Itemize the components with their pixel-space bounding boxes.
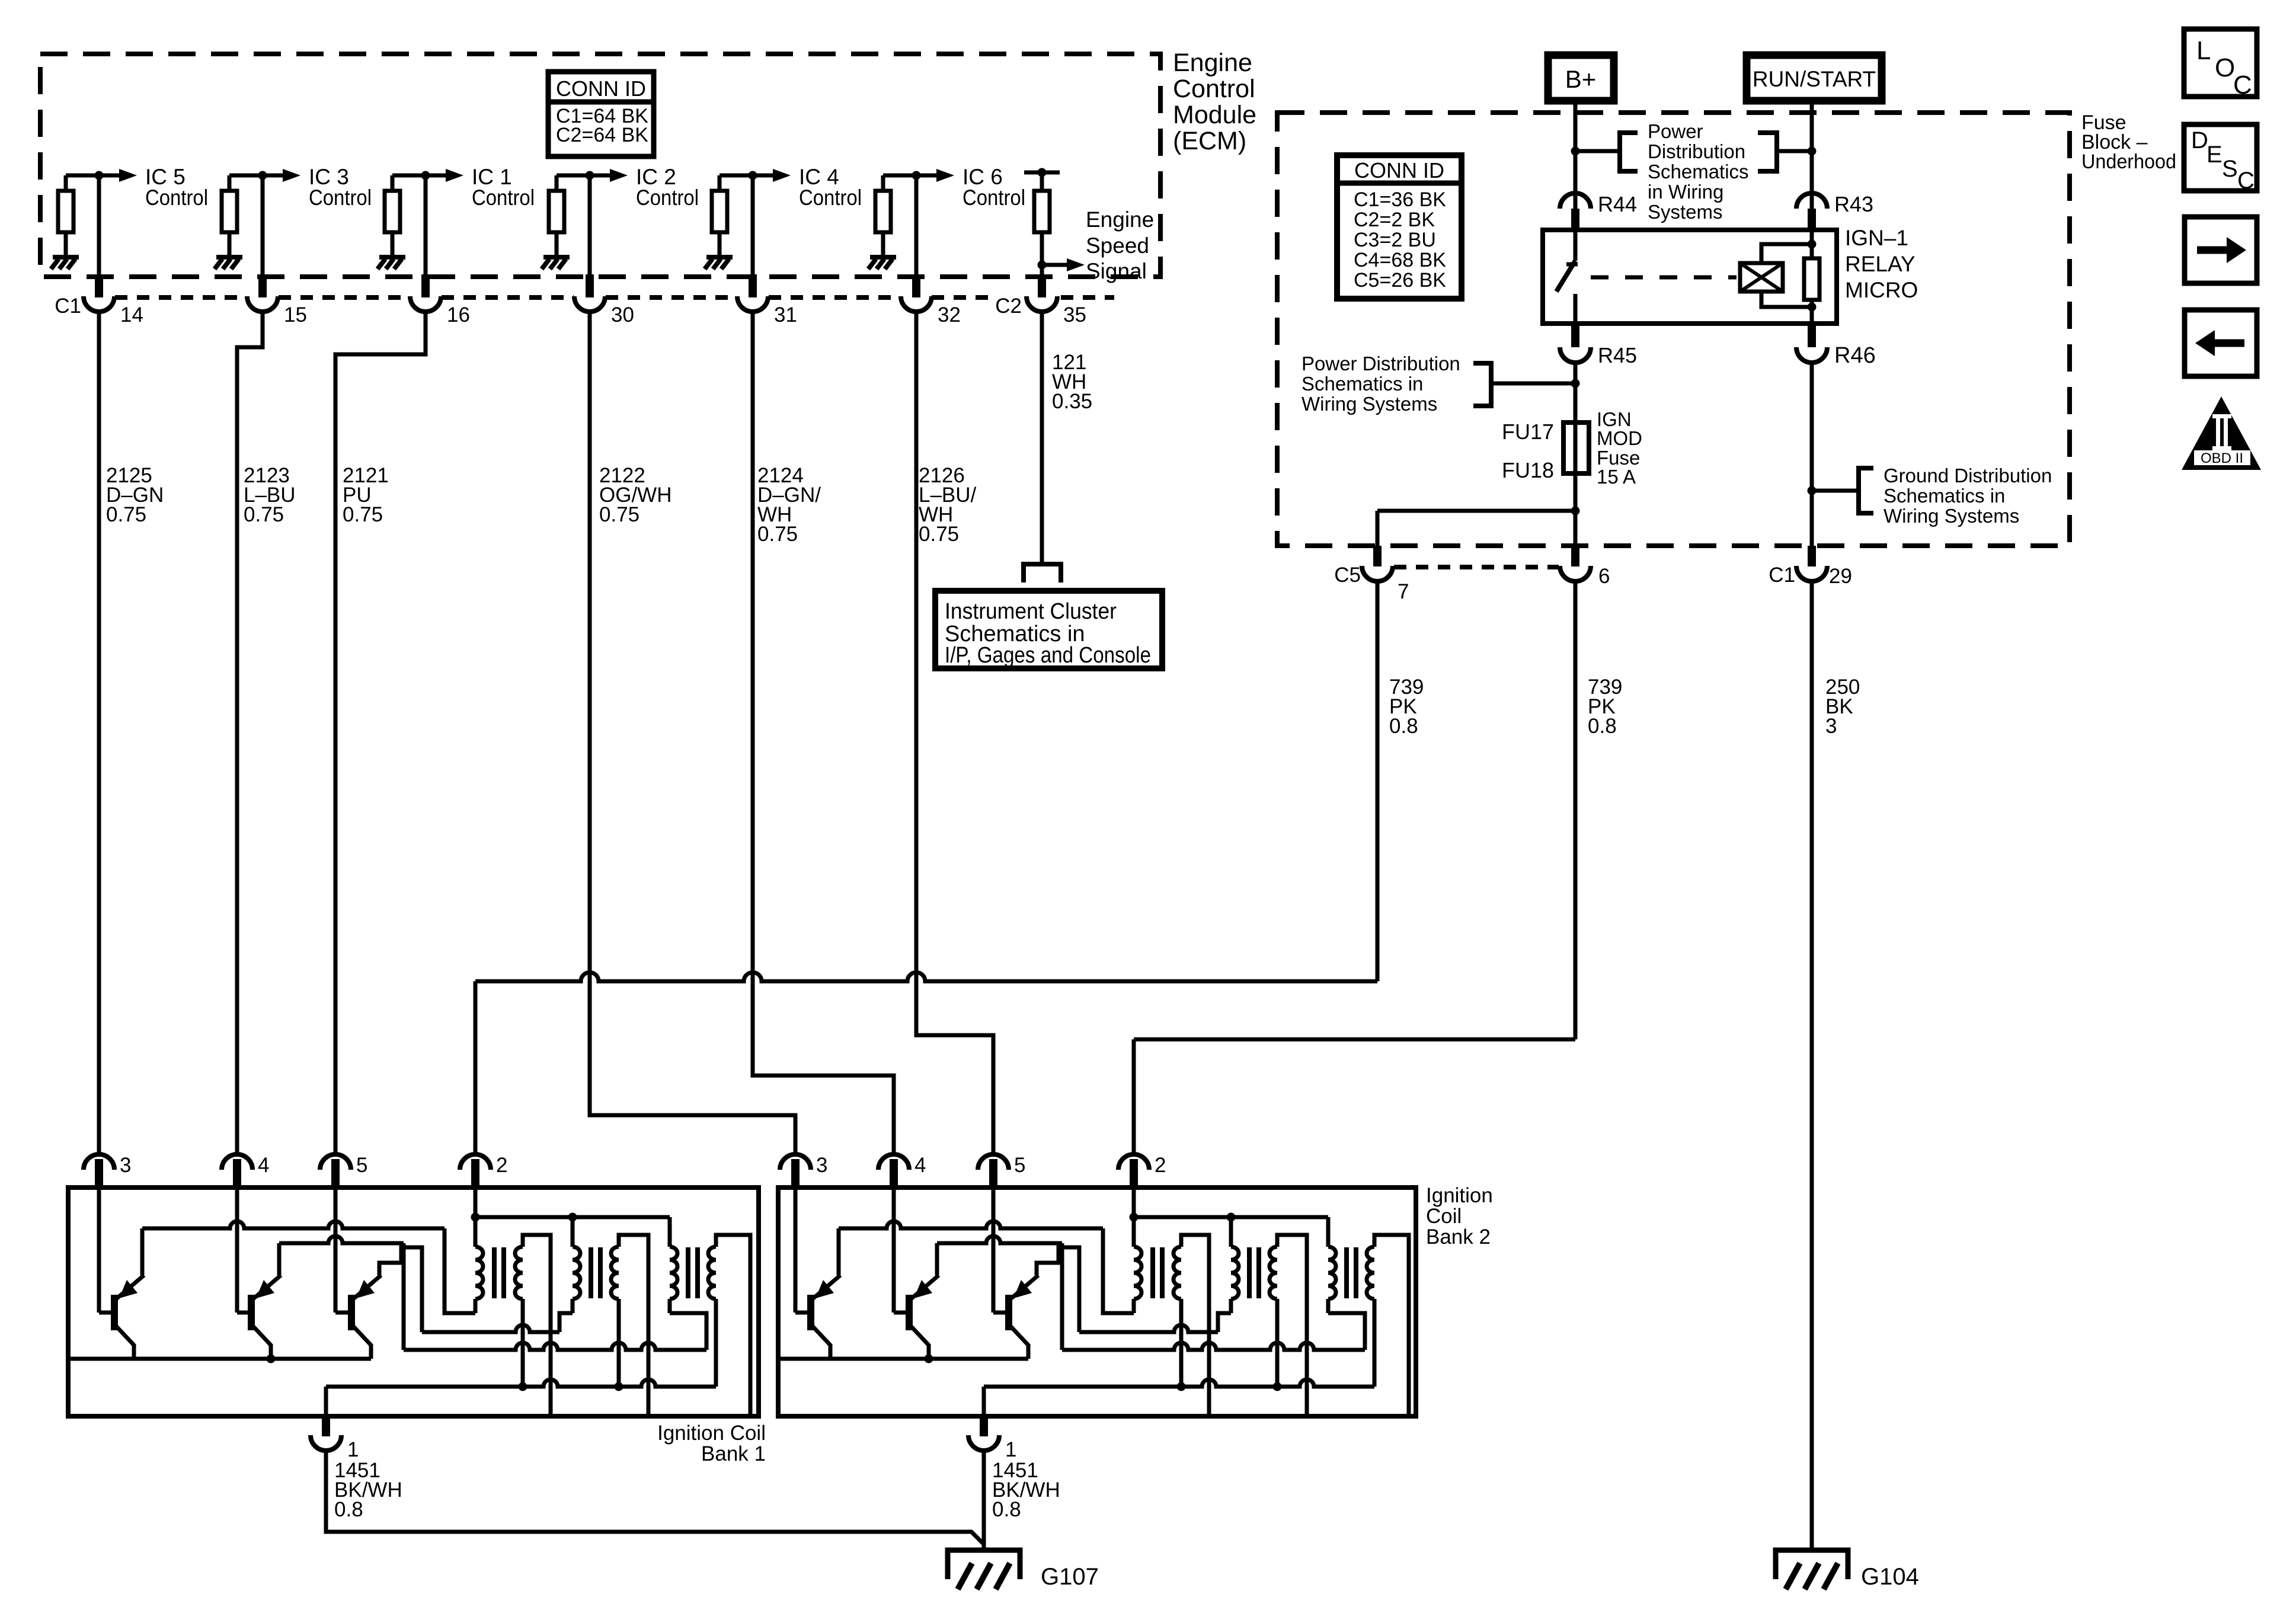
svg-text:CONN ID: CONN ID: [1354, 158, 1444, 183]
connector pin 5 cup bank1: [320, 1154, 351, 1170]
connector pin 4 cup bank1: [222, 1154, 252, 1170]
connector pin 6 cup: [1560, 566, 1591, 581]
svg-text:CONN ID: CONN ID: [556, 76, 646, 101]
ground IC 5: [53, 255, 79, 260]
pin stub 4 bank2: [890, 1159, 898, 1188]
ECM connector face dotted line: [1061, 295, 1114, 300]
inductor winding T1 secondary: [515, 1247, 523, 1299]
wire Q2 collector: [279, 1236, 404, 1243]
Fuse Block Underhood dashed outline: [1277, 113, 2070, 546]
svg-text:C2=2 BK: C2=2 BK: [1354, 209, 1435, 231]
wire secondary high-tension drop bank1: [619, 1235, 648, 1416]
wire B+ to R44: [1574, 101, 1578, 209]
connector pin 32 cup: [901, 296, 932, 312]
ignition coil bank box bank2: [778, 1188, 1416, 1416]
node supply bus 1 bank1: [471, 1213, 480, 1222]
wire resistor stub IC 6: [881, 175, 885, 191]
wire IC 5 to pin: [97, 175, 101, 274]
wire R43 into relay: [1810, 230, 1814, 258]
wire R46 to pin 29: [1810, 361, 1814, 546]
svg-text:Module: Module: [1173, 101, 1256, 129]
svg-text:C1: C1: [55, 295, 81, 318]
svg-text:0.8: 0.8: [1389, 715, 1418, 738]
wire T2 primary bottom bank1: [571, 1299, 575, 1313]
transistor Q3: [351, 1275, 381, 1359]
svg-text:Wiring Systems: Wiring Systems: [1302, 393, 1437, 415]
node relay coil top: [1808, 240, 1817, 249]
svg-text:0.75: 0.75: [343, 503, 383, 526]
svg-text:D: D: [2191, 127, 2208, 153]
inductor winding T3 primary: [670, 1247, 677, 1299]
svg-text:Bank 1: Bank 1: [701, 1442, 766, 1465]
wire supply to T3 primary bank2: [1326, 1217, 1331, 1247]
wire branch to pin 7: [1377, 509, 1575, 513]
svg-text:4: 4: [914, 1154, 926, 1177]
arrow engine speed: [1067, 258, 1085, 271]
svg-text:32: 32: [938, 303, 961, 327]
wire to power distribution bracket left: [1575, 149, 1620, 153]
ground IC 3: [216, 255, 242, 260]
node supply bus 2 bank2: [1227, 1213, 1236, 1222]
ECM connector face dotted line: [115, 295, 247, 300]
transformer T3: [670, 1247, 716, 1299]
pin stub R45: [1571, 324, 1579, 347]
wire resistor to ground IC 4: [718, 232, 722, 255]
node relay coil bottom: [1808, 303, 1817, 312]
wire resistor to ground IC 2: [555, 232, 559, 255]
node emitter junction bank1: [267, 1355, 276, 1363]
wire pin15 to bank1 pin4: [237, 312, 263, 1154]
svg-text:Ignition: Ignition: [1426, 1184, 1493, 1207]
relay switch pivot tick: [1566, 263, 1578, 267]
wire Q4 collector riser: [837, 1228, 841, 1275]
Instrument Cluster reference box: [935, 591, 1162, 668]
legend back arrow box: [2185, 310, 2257, 376]
wire Q3 collector staircase: [379, 1247, 422, 1332]
wire T1 primary bottom bank2: [1132, 1299, 1136, 1313]
node IC 5: [95, 171, 104, 180]
wire through fuse: [1574, 422, 1578, 473]
ground G107: [948, 1550, 1020, 1579]
node supply bus 1 bank2: [1130, 1213, 1139, 1222]
wire label 2125 D-GN 0.75: [106, 464, 164, 526]
svg-text:B+: B+: [1565, 65, 1597, 93]
svg-text:30: 30: [611, 303, 634, 327]
svg-text:Control: Control: [145, 185, 208, 210]
svg-text:Schematics in: Schematics in: [1884, 485, 2005, 507]
ECM connector face dotted line: [606, 295, 737, 300]
pin stub 1: [980, 1416, 988, 1436]
wire resistor to ground IC 5: [64, 232, 68, 255]
wire T2 secondary return bank1: [617, 1299, 621, 1387]
svg-text:G104: G104: [1861, 1564, 1919, 1590]
inductor winding T3 secondary: [708, 1247, 716, 1299]
ECM CONN ID table: [548, 72, 654, 156]
node power distribution tap: [1571, 379, 1580, 388]
wire resistor to ground IC 3: [228, 232, 232, 255]
wire resistor to relay pin: [1810, 300, 1814, 324]
legend DESC box: [2184, 124, 2257, 191]
svg-text:Coil: Coil: [1426, 1205, 1462, 1228]
pin stub 2 bank2: [1130, 1159, 1138, 1188]
svg-text:IGN–1: IGN–1: [1845, 226, 1908, 250]
pin stub 35: [1038, 274, 1046, 297]
svg-text:Control: Control: [1173, 75, 1255, 103]
pin stub 1: [322, 1416, 330, 1436]
svg-text:Speed: Speed: [1086, 233, 1149, 258]
connector pin 1 cup: [311, 1435, 341, 1451]
svg-text:G107: G107: [1041, 1564, 1099, 1590]
svg-text:Underhood: Underhood: [2081, 151, 2176, 173]
wire top bar to resistor: [1040, 172, 1044, 191]
connector pin 4 cup bank2: [878, 1154, 909, 1170]
transformer T5: [1231, 1247, 1277, 1299]
relay switch fixed lead: [1574, 230, 1578, 261]
svg-text:C1=36 BK: C1=36 BK: [1354, 188, 1446, 211]
svg-text:0.75: 0.75: [244, 503, 284, 526]
wire resistor stub IC 1: [391, 175, 395, 191]
svg-text:R44: R44: [1598, 192, 1637, 216]
svg-text:Ignition Coil: Ignition Coil: [657, 1422, 766, 1445]
wire resistor to pin 35: [1040, 232, 1044, 274]
svg-text:C5=26 BK: C5=26 BK: [1354, 269, 1446, 292]
inductor winding T6 secondary: [1367, 1247, 1374, 1299]
node IC 6: [912, 171, 921, 180]
wire label 2121 PU 0.75: [343, 464, 389, 526]
svg-text:3: 3: [120, 1154, 131, 1177]
svg-text:Power Distribution: Power Distribution: [1302, 353, 1460, 375]
inductor winding T4 secondary: [1173, 1247, 1181, 1299]
svg-text:C2: C2: [995, 295, 1022, 318]
node IC 4: [749, 171, 757, 180]
connector pin 2 cup bank1: [460, 1154, 491, 1170]
wire supply bus bank2: [1134, 1215, 1328, 1219]
connector pin R44 cup: [1560, 193, 1591, 209]
wire bank2 pin1 to G107: [982, 1451, 986, 1550]
svg-text:MICRO: MICRO: [1845, 278, 1918, 302]
legend forward arrow box: [2185, 217, 2257, 283]
ground IC 2: [543, 255, 570, 260]
relay coil X: [1740, 263, 1783, 292]
wire pin7 to bank1 pin2 with hops: [475, 972, 1377, 981]
svg-text:1: 1: [1005, 1438, 1016, 1461]
wire R45 to fuse: [1574, 361, 1578, 422]
ECM connector face dotted line: [279, 295, 410, 300]
legend OBD II symbol: [2182, 396, 2261, 470]
transformer T1: [475, 1247, 523, 1299]
legend LOC box: [2184, 29, 2257, 97]
pin stub 30: [586, 274, 594, 297]
svg-text:2: 2: [496, 1154, 507, 1177]
wire secondary high-tension drop bank1: [523, 1235, 551, 1416]
wire down to bank2 pin2: [1132, 1039, 1136, 1154]
wire ground bus bank2: [984, 1379, 1374, 1387]
connector pin 3 cup bank1: [84, 1154, 114, 1170]
wire supply to T2 primary bank1: [571, 1217, 575, 1247]
wire label 2126 L-BU/WH 0.75: [919, 464, 977, 546]
connector pin 31 cup: [737, 296, 768, 312]
wire ground bus to pin1 bank2: [982, 1387, 986, 1416]
svg-text:S: S: [2222, 156, 2238, 182]
transformer T2: [573, 1247, 619, 1299]
wire IC 5 node to arrow: [66, 174, 119, 178]
wire IC 1 node to arrow: [392, 174, 446, 178]
wire IC 4 node to arrow: [720, 174, 773, 178]
resistor IC 6 pull-down: [875, 191, 891, 232]
wire pin6 to bank2 pin2: [1134, 1038, 1575, 1042]
wire down to pin 7: [1376, 511, 1380, 546]
wire Q2 collector to T3 primary: [404, 1343, 706, 1350]
wire pin2 supply riser bank2: [1132, 1188, 1136, 1247]
svg-text:0.75: 0.75: [919, 523, 959, 546]
wire Q5 collector riser: [935, 1243, 939, 1275]
wire label 739 PK 0.8 (pin7): [1389, 676, 1424, 738]
svg-text:Bank 2: Bank 2: [1426, 1225, 1491, 1249]
wire T1 secondary return bank2: [1179, 1299, 1184, 1387]
svg-text:R46: R46: [1834, 343, 1876, 368]
node RUN/START branch: [1808, 147, 1817, 156]
wire T2 primary bottom bank2: [1229, 1299, 1233, 1313]
pin stub 3 bank2: [791, 1159, 800, 1188]
inductor winding T4 primary: [1134, 1247, 1141, 1299]
wire bracket to RUN/START: [1777, 149, 1812, 153]
ground IC 1: [379, 255, 405, 260]
inductor winding T6 primary: [1328, 1247, 1336, 1299]
wire Q5 collector: [937, 1236, 1062, 1243]
wire pin14 to bank1 pin3: [97, 312, 101, 1154]
wire T1 primary bottom bank1: [474, 1299, 478, 1313]
connector pin 1 cup: [968, 1435, 999, 1451]
wire ground bus bank1: [326, 1379, 716, 1387]
svg-text:Engine: Engine: [1086, 207, 1154, 232]
wire T3 secondary return bank1: [714, 1299, 718, 1387]
node ground distribution tap: [1808, 486, 1817, 495]
resistor IC 1 pull-down: [385, 191, 400, 232]
wire pin2 supply riser bank1: [474, 1188, 478, 1247]
wire pin to transistor base bank2: [794, 1188, 798, 1313]
svg-text:0.8: 0.8: [334, 1498, 363, 1521]
wire resistor to ground IC 6: [881, 232, 885, 255]
node IC 1: [421, 171, 430, 180]
wire supply to T2 primary bank2: [1229, 1217, 1233, 1247]
transistor Q4: [811, 1275, 840, 1359]
pin stub 7: [1373, 546, 1382, 566]
arrow IC 4: [773, 169, 791, 182]
svg-text:RUN/START: RUN/START: [1753, 67, 1876, 91]
bracket left power distribution: [1620, 133, 1638, 171]
connector pin 7 cup: [1362, 566, 1393, 581]
wire engine-speed top bar: [1024, 171, 1060, 175]
svg-text:4: 4: [258, 1154, 269, 1177]
resistor IC 5 pull-down: [58, 191, 73, 232]
ECM module U1 dashed outline: [40, 54, 1160, 277]
svg-text:Instrument Cluster: Instrument Cluster: [945, 599, 1117, 624]
connector pin R43 cup: [1796, 193, 1827, 209]
pin stub 32: [912, 274, 920, 297]
node secondary return 4: [1273, 1382, 1282, 1391]
wire to ground distribution bracket: [1812, 489, 1859, 493]
node fuse output: [1571, 507, 1580, 516]
resistor engine speed: [1034, 191, 1050, 232]
svg-text:R43: R43: [1834, 192, 1873, 216]
wire pin to transistor base bank2: [892, 1188, 896, 1313]
wire supply to T3 primary bank1: [668, 1217, 672, 1247]
ECM connector face dotted line: [932, 295, 997, 300]
node emitter junction bank2: [925, 1355, 933, 1363]
node secondary return 2: [615, 1382, 623, 1391]
svg-text:C4=68 BK: C4=68 BK: [1354, 249, 1446, 271]
svg-text:15 A: 15 A: [1597, 466, 1636, 488]
node IC 2: [586, 171, 594, 180]
svg-text:0.75: 0.75: [757, 523, 798, 546]
wire IC 6 to pin: [914, 175, 919, 274]
svg-text:C1: C1: [1769, 564, 1795, 587]
wire fuse to pin 6: [1574, 473, 1578, 546]
node engine-speed top: [1038, 168, 1047, 177]
pin stub 15: [258, 274, 267, 297]
pin stub R46: [1808, 324, 1816, 347]
svg-text:31: 31: [774, 303, 797, 327]
wire emitter bus bank1: [68, 1357, 371, 1361]
connector pin R46 cup: [1796, 347, 1827, 363]
wire resistor stub IC 5: [64, 175, 68, 191]
svg-text:5: 5: [1014, 1154, 1025, 1177]
off-page connector bracket: [1024, 564, 1061, 582]
svg-text:MOD: MOD: [1597, 427, 1642, 449]
connector pin 2 cup bank2: [1118, 1154, 1149, 1170]
node secondary return 3: [1177, 1382, 1186, 1391]
connector pin R45 cup: [1560, 347, 1591, 363]
wire T3 primary bottom bank2: [1326, 1299, 1331, 1313]
svg-text:5: 5: [356, 1154, 367, 1177]
arrow IC 5: [119, 169, 137, 182]
svg-text:15: 15: [284, 303, 307, 327]
wire supply bus bank1: [475, 1215, 670, 1219]
wire Q6 collector staircase: [1037, 1247, 1079, 1332]
svg-text:O: O: [2215, 53, 2235, 82]
svg-text:Control: Control: [309, 185, 372, 210]
wire IC 6 node to arrow: [883, 174, 936, 178]
svg-text:in Wiring: in Wiring: [1648, 181, 1723, 203]
pin stub 14: [95, 274, 103, 297]
svg-text:C: C: [2233, 71, 2252, 100]
bracket power distribution left block: [1473, 363, 1491, 406]
B+ power feed box: [1548, 55, 1614, 101]
svg-text:0.75: 0.75: [106, 503, 146, 526]
wire to coil top: [1761, 244, 1812, 263]
svg-text:2: 2: [1155, 1154, 1166, 1177]
inductor winding T5 primary: [1231, 1247, 1239, 1299]
pin stub 6: [1571, 546, 1579, 566]
resistor IC 3 pull-down: [222, 191, 237, 232]
relay switch lower lead: [1574, 294, 1578, 324]
wire pin to transistor base bank1: [97, 1188, 101, 1313]
RUN/START power feed box: [1747, 55, 1882, 101]
svg-text:R45: R45: [1598, 343, 1637, 367]
transformer T6: [1328, 1247, 1374, 1299]
node B+ branch: [1571, 147, 1580, 156]
svg-text:Schematics: Schematics: [1648, 161, 1749, 183]
connector pin 29 cup: [1796, 566, 1827, 581]
svg-text:6: 6: [1598, 565, 1610, 588]
wire pin35 to instrument cluster: [1040, 312, 1044, 563]
fuse FU17/FU18 IGN MOD 15A: [1563, 422, 1589, 473]
Fuse block CONN ID table: [1337, 155, 1462, 299]
pin stub 5 bank2: [989, 1159, 997, 1188]
svg-text:0.8: 0.8: [1588, 715, 1617, 738]
connector pin 35 cup: [1027, 296, 1057, 312]
pin stub 29: [1808, 546, 1816, 566]
wire label 121 WH 0.35: [1052, 351, 1092, 413]
wire pin32 to bank2 pin5: [916, 312, 993, 1154]
wire Q5 collector to T3 primary: [1062, 1343, 1365, 1350]
ECM connector face dotted line: [442, 295, 574, 300]
pin stub 16: [421, 274, 430, 297]
wire resistor stub IC 3: [228, 175, 232, 191]
svg-text:Control: Control: [472, 185, 535, 210]
wire Q3 collector to T2 primary: [422, 1325, 559, 1332]
inductor winding T1 primary: [475, 1247, 483, 1299]
svg-text:16: 16: [447, 303, 470, 327]
wire Q1 collector to T1 primary: [142, 1221, 445, 1228]
svg-text:0.75: 0.75: [599, 503, 639, 526]
node IC 3: [258, 171, 267, 180]
ignition coil bank box bank1: [68, 1188, 759, 1416]
wire label 2122 OG/WH 0.75: [599, 464, 671, 526]
svg-text:OBD II: OBD II: [2201, 450, 2243, 466]
wire label 250 BK 3: [1825, 676, 1860, 738]
wire IC 2 to pin: [588, 175, 592, 274]
svg-text:I/P, Gages and Console: I/P, Gages and Console: [945, 643, 1151, 668]
wire Q2 collector riser: [277, 1243, 282, 1275]
relay actuator dashed link: [1591, 276, 1737, 280]
wire pin16 to bank1 pin5: [335, 312, 426, 1154]
transistor Q1: [114, 1275, 144, 1359]
ground IC 4: [706, 255, 733, 260]
wire IC 3 node to arrow: [229, 174, 283, 178]
wire resistor stub IC 2: [555, 175, 559, 191]
wire T3 primary bottom bank1: [668, 1299, 672, 1313]
ground G104: [1776, 1550, 1848, 1579]
ECM connector face dotted line: [769, 295, 900, 300]
pin stub 5 bank1: [331, 1159, 340, 1188]
svg-text:Signal: Signal: [1086, 259, 1147, 283]
node engine speed signal: [1038, 261, 1047, 270]
node secondary return 1: [519, 1382, 527, 1391]
svg-text:Control: Control: [636, 185, 699, 210]
wire pin29 to G104: [1810, 582, 1814, 1550]
connector pin 16 cup: [410, 296, 441, 312]
svg-text:C2=64 BK: C2=64 BK: [556, 124, 648, 146]
resistor IC 2 pull-down: [549, 191, 564, 232]
wire pin31 to bank2 pin4: [753, 312, 894, 1154]
wire pin7 down: [1376, 582, 1380, 981]
wire Q6 collector to T2 primary: [1079, 1325, 1218, 1332]
wire secondary high-tension drop bank2: [1374, 1235, 1409, 1416]
transistor Q6: [1009, 1275, 1038, 1359]
pin stub 31: [749, 274, 757, 297]
svg-text:RELAY: RELAY: [1845, 252, 1916, 276]
node supply bus 2 bank1: [568, 1213, 577, 1222]
wire secondary high-tension drop bank2: [1181, 1235, 1209, 1416]
connector pin 14 cup: [84, 296, 114, 312]
wire pin30 to bank2 pin3: [590, 312, 795, 1154]
connector pin 3 cup bank2: [780, 1154, 811, 1170]
svg-text:E: E: [2207, 142, 2223, 168]
wire ground bus to pin1 bank1: [324, 1387, 328, 1416]
ground IC 6: [870, 255, 896, 260]
wire pin to transistor base bank1: [235, 1188, 239, 1313]
